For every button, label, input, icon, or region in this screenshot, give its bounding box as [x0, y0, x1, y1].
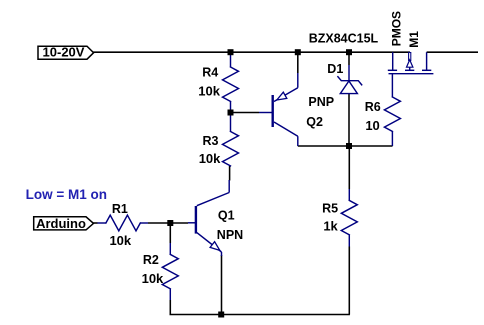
wire D1 cathode to rail — [348, 52, 350, 66]
svg-text:R2: R2 — [143, 253, 159, 267]
label Q1 — [218, 209, 235, 223]
wire R2 top — [169, 223, 171, 243]
value 10k (R1) — [109, 233, 131, 248]
resistor R6 — [384, 74, 400, 146]
value 10k (R3) — [199, 151, 221, 166]
svg-text:Q2: Q2 — [306, 115, 323, 129]
wire top rail 10-20V to M1 source/bulk — [93, 51, 411, 53]
label R2 — [143, 253, 159, 267]
transistor Q1 NPN — [188, 180, 229, 256]
svg-text:R5: R5 — [322, 201, 338, 215]
label M1 — [407, 31, 421, 48]
label BZX84C15L (D1 value) — [309, 31, 379, 45]
label R4 — [202, 65, 218, 79]
svg-text:PNP: PNP — [308, 95, 334, 109]
svg-text:R6: R6 — [365, 100, 381, 114]
value 10 (R6) — [365, 118, 379, 133]
value 10k (R4) — [198, 84, 220, 99]
svg-text:R4: R4 — [202, 65, 218, 79]
junction R4/R3/Q2 base — [228, 110, 234, 116]
diode D1 zener — [338, 65, 362, 94]
value 1k (R5) — [323, 219, 338, 234]
wire D1 anode down to node — [348, 94, 350, 146]
svg-text:Low = M1 on: Low = M1 on — [26, 187, 107, 202]
mosfet M1 PMOS — [388, 52, 434, 73]
label R6 — [365, 100, 381, 114]
svg-text:Q1: Q1 — [218, 209, 235, 223]
wire bottom rail — [170, 314, 350, 316]
label R3 — [203, 134, 219, 148]
wire M1 drain to output (right edge) — [427, 51, 478, 53]
flag/net label Arduino — [34, 216, 94, 231]
label Q2 — [306, 115, 323, 129]
svg-text:10: 10 — [365, 118, 379, 133]
junction rail/Q2 emitter — [295, 49, 301, 55]
label R5 — [322, 201, 338, 215]
resistor R1 — [98, 215, 149, 231]
flag/net label 10-20V — [38, 44, 94, 59]
label PNP (Q2 type) — [308, 95, 334, 109]
resistor R5 — [341, 189, 357, 247]
resistor R3 — [223, 113, 239, 166]
wire Q2 base to R3/R4 node — [231, 112, 260, 114]
comment text Low = M1 on — [26, 187, 107, 202]
svg-text:R1: R1 — [112, 202, 128, 216]
junction R1/R2/Q1 base — [167, 220, 173, 226]
wire R1 right to Q1 base node — [148, 222, 170, 224]
label NPN (Q1 type) — [217, 228, 243, 242]
svg-text:10k: 10k — [109, 233, 131, 248]
wire R5 top lead — [348, 146, 350, 189]
junction rail/D1 — [346, 49, 352, 55]
junction collector node — [346, 143, 352, 149]
value 10k (R2) — [142, 271, 164, 286]
wire Q2 emitter to rail — [297, 52, 299, 74]
wire Q1 base — [170, 222, 188, 224]
resistor R2 — [162, 243, 178, 300]
svg-text:1k: 1k — [323, 219, 338, 234]
svg-text:10k: 10k — [198, 84, 220, 99]
transistor Q2 PNP — [259, 73, 298, 146]
svg-text:PMOS: PMOS — [389, 11, 403, 46]
wire Arduino tag to R1 — [93, 222, 97, 224]
junction rail/R4 — [228, 49, 234, 55]
svg-text:R3: R3 — [203, 134, 219, 148]
svg-text:NPN: NPN — [217, 228, 243, 242]
svg-text:10k: 10k — [199, 151, 221, 166]
label R1 — [112, 202, 128, 216]
label PMOS (M1 type) — [389, 11, 403, 46]
wire R2 bottom — [169, 300, 171, 315]
label D1 — [327, 62, 343, 76]
junction Q1 emitter/bottom rail — [218, 312, 224, 318]
wire R3 bottom to Q1 collector — [229, 166, 231, 181]
wire collector node row (Q2 collector / D1 anode / R6 / R5) — [298, 145, 393, 147]
svg-text:10-20V: 10-20V — [43, 44, 85, 59]
svg-text:D1: D1 — [327, 62, 343, 76]
resistor R4 — [223, 52, 239, 112]
svg-text:BZX84C15L: BZX84C15L — [309, 31, 379, 45]
wire R5 bottom to ground rail — [348, 247, 350, 315]
wire Q1 emitter down to bottom rail — [221, 255, 223, 315]
svg-text:Arduino: Arduino — [36, 216, 86, 231]
svg-text:M1: M1 — [407, 31, 421, 48]
svg-text:10k: 10k — [142, 271, 164, 286]
